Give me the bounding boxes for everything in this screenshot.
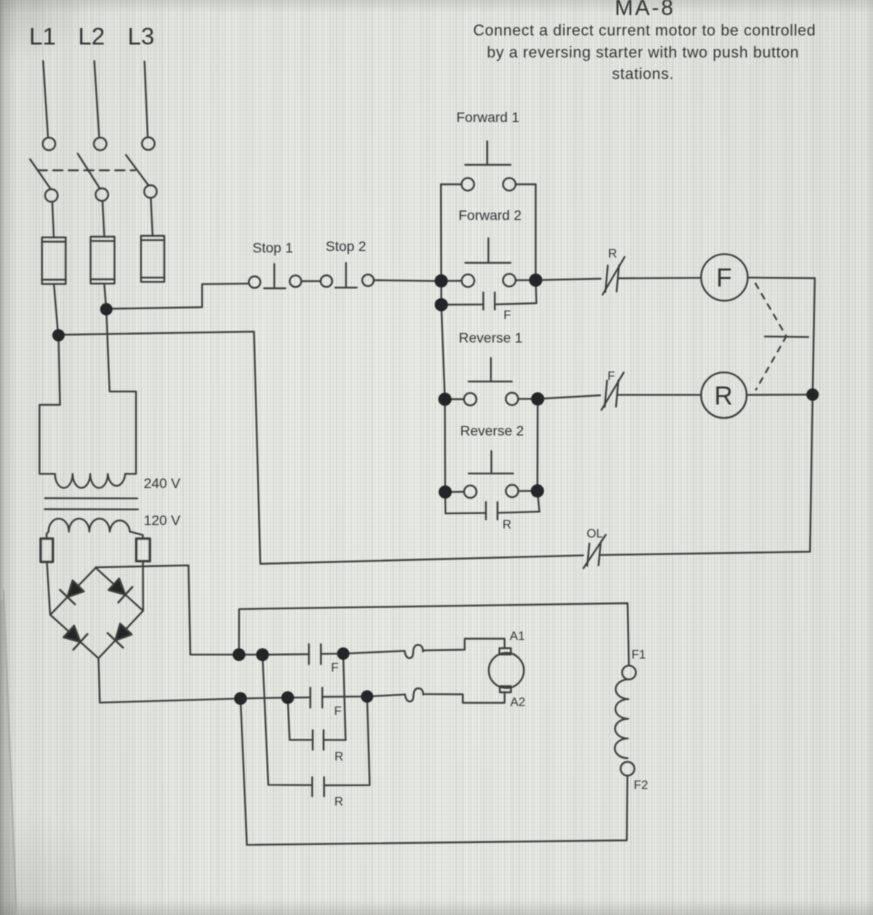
svg-text:R: R xyxy=(714,383,732,411)
svg-text:by a reversing starter with tw: by a reversing starter with two push but… xyxy=(487,44,799,61)
svg-text:Reverse 1: Reverse 1 xyxy=(459,329,523,345)
svg-text:L1: L1 xyxy=(29,23,56,50)
svg-text:Stop 2: Stop 2 xyxy=(326,238,367,254)
svg-text:F1: F1 xyxy=(632,648,647,662)
svg-text:120 V: 120 V xyxy=(144,512,181,528)
svg-text:Stop 1: Stop 1 xyxy=(253,239,294,255)
svg-text:F: F xyxy=(608,369,616,383)
svg-text:A1: A1 xyxy=(510,629,525,643)
svg-text:F: F xyxy=(331,660,339,674)
svg-text:F2: F2 xyxy=(634,778,649,792)
svg-text:F: F xyxy=(503,308,511,322)
svg-text:L2: L2 xyxy=(78,23,105,50)
svg-text:F: F xyxy=(716,264,732,292)
svg-text:OL: OL xyxy=(587,527,604,541)
svg-text:Reverse 2: Reverse 2 xyxy=(460,422,524,438)
svg-text:R: R xyxy=(334,794,343,808)
svg-text:R: R xyxy=(503,518,512,532)
svg-text:F: F xyxy=(334,704,342,718)
svg-text:240 V: 240 V xyxy=(144,475,181,491)
svg-text:Forward 1: Forward 1 xyxy=(456,109,519,125)
svg-text:L3: L3 xyxy=(128,23,155,50)
svg-text:A2: A2 xyxy=(510,695,525,709)
svg-text:R: R xyxy=(334,749,343,763)
svg-text:R: R xyxy=(608,247,617,261)
svg-text:stations.: stations. xyxy=(612,66,674,83)
svg-text:Forward 2: Forward 2 xyxy=(458,207,521,223)
svg-text:Connect a direct current motor: Connect a direct current motor to be con… xyxy=(473,23,816,40)
svg-text:MA-8: MA-8 xyxy=(615,0,676,20)
